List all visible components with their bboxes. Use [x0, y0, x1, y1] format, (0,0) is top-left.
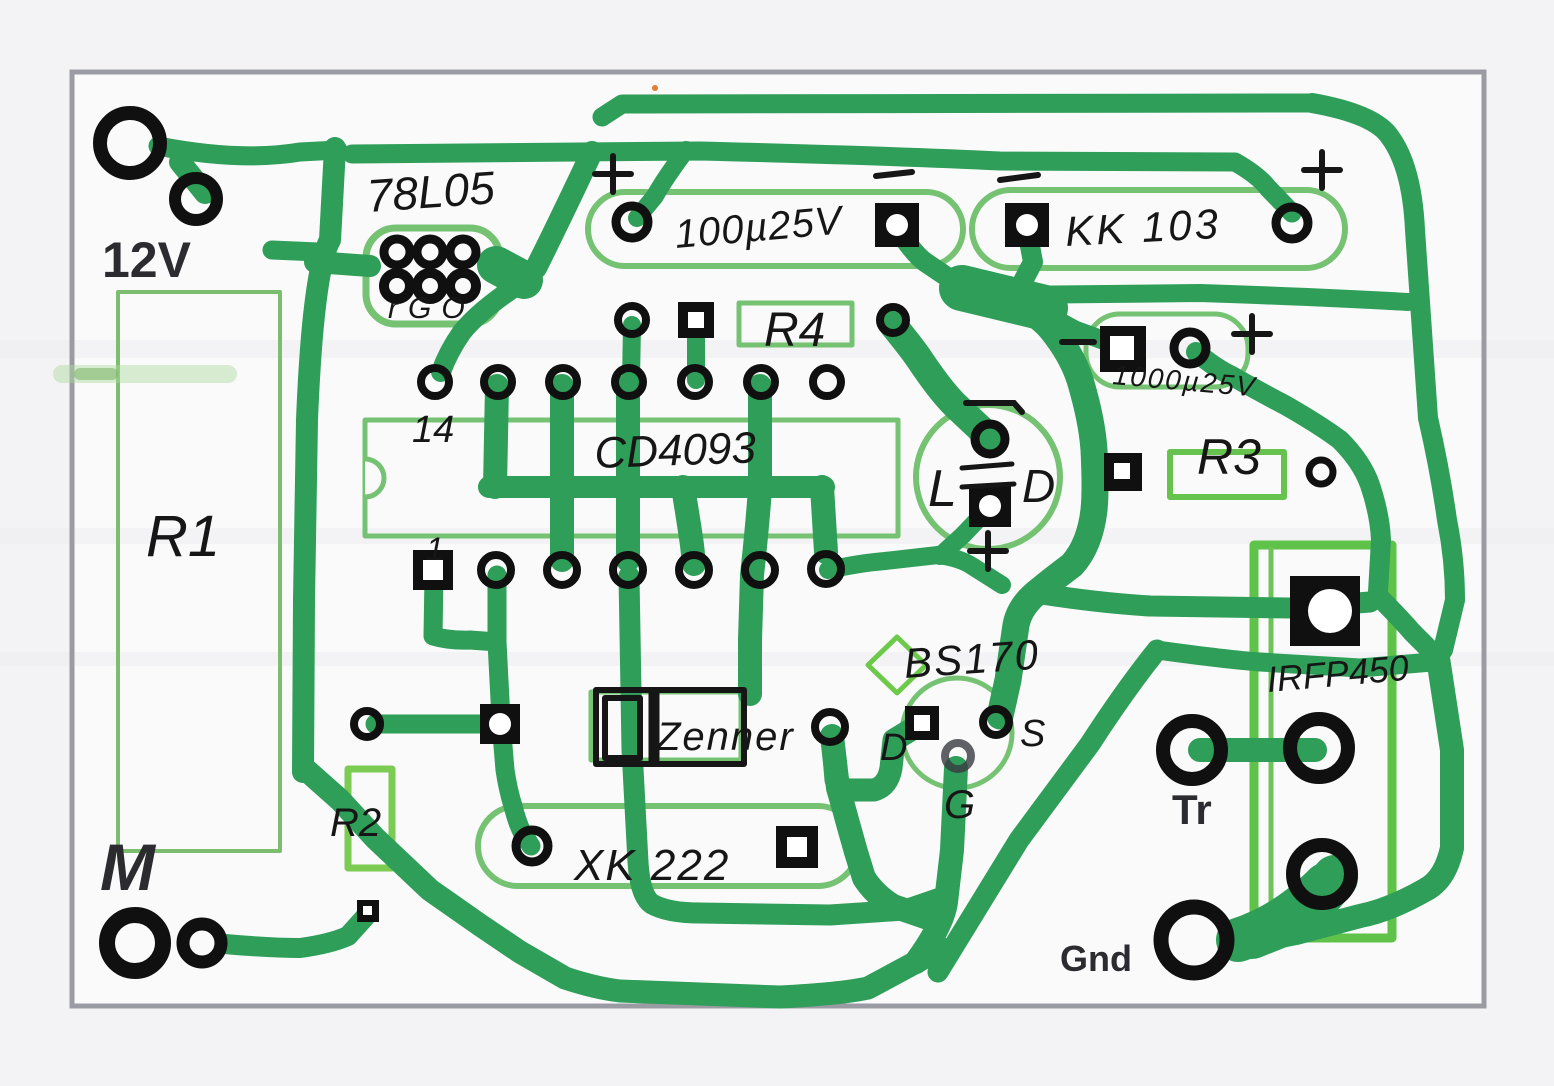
svg-text:R4: R4: [764, 304, 825, 357]
wire node horizontal to right edge: [1010, 293, 1408, 302]
svg-text:Tr: Tr: [1172, 786, 1212, 833]
wire from KK103 minus pad to node: [1020, 230, 1033, 287]
pad Tr ring 1: [1163, 721, 1221, 779]
wire node junction blob: [962, 288, 1045, 308]
pad 1000u plus ring: [1174, 332, 1206, 364]
wire small ring to square pad: [375, 715, 497, 734]
svg-text:L: L: [928, 460, 957, 518]
wire junction up to horizontal: [536, 152, 592, 268]
wire Tr to Gnd blob: [1238, 885, 1325, 940]
svg-text:Zenner: Zenner: [655, 715, 795, 759]
pad node ring: [880, 307, 906, 333]
wire IC internal bus bar: [489, 476, 824, 498]
pad KK103 minus square: [1005, 203, 1049, 247]
wire branch to IRFP450 pad: [1042, 594, 1370, 608]
IC notch: [365, 459, 384, 497]
wire zener to D pad zigzag: [833, 728, 914, 790]
plus KK103: [1319, 152, 1325, 188]
pad LED anode square: [969, 485, 1011, 527]
pad bottom-left big ring: [107, 915, 163, 971]
pad small solid square: [357, 900, 379, 922]
svg-text:XK 222: XK 222: [573, 841, 730, 890]
pads: [100, 113, 1360, 973]
wire bottom diagonal: [304, 768, 940, 997]
wire branch to 100u plus pad: [637, 150, 686, 218]
regulator 78L05 outline: [366, 228, 500, 324]
minus LED: [966, 403, 1022, 412]
wire right side down to bottom corner: [1250, 658, 1452, 942]
dark green traces: [158, 103, 1455, 997]
pads 78L05 bottom row: [384, 273, 410, 299]
pad zener ring: [815, 712, 845, 742]
svg-text:14: 14: [412, 409, 454, 451]
wire IC pins to mid pads: [631, 325, 632, 380]
svg-text:M: M: [100, 830, 157, 904]
svg-text:R1: R1: [146, 504, 220, 569]
plus minus signs: [595, 152, 1340, 569]
plus 1000u: [1249, 316, 1255, 352]
wire top horizontal 1: [602, 103, 1312, 117]
svg-text:1: 1: [426, 531, 444, 567]
resistor R2 outline: [348, 769, 392, 868]
pad XK222 square: [776, 826, 818, 868]
label LED E strokes: [962, 464, 1014, 487]
wire IC pin1 down to XK222: [433, 575, 531, 846]
pad IC pin1 square: [413, 550, 453, 590]
wire from 100u minus pad to node: [898, 230, 962, 287]
wire node to S pad: [1000, 300, 1095, 716]
transistor IRFP450 inner outline line: [1269, 547, 1274, 936]
wire IC stub pin2: [495, 386, 497, 487]
wire top-left pads to vertical: [158, 146, 338, 156]
pad IRFP450 square: [1290, 576, 1360, 646]
wire IC bar end stub: [822, 487, 826, 552]
pad small ring left: [354, 711, 380, 737]
pad 1000u minus square: [1100, 326, 1146, 372]
pad Gnd big ring: [1161, 907, 1227, 973]
pads 78L05 top row: [384, 239, 410, 265]
light green outlines group: [118, 190, 1392, 938]
zener diode outline: [591, 692, 741, 760]
wire trunk to 78L05: [315, 262, 370, 266]
pad mid square: [678, 302, 714, 338]
capacitor KK103 outline: [972, 190, 1345, 268]
wire U shape from IC pin: [629, 576, 940, 915]
transistor BS170 outline circle: [902, 678, 1012, 788]
wire long diagonal to G2: [938, 650, 1157, 972]
handwriting group: [62, 85, 1410, 979]
wire Tr pads horizontal: [1200, 738, 1315, 762]
pad Tr ring 2: [1290, 719, 1348, 777]
wire mid square pad to IC pin: [687, 325, 705, 380]
minus 1000u: [1062, 339, 1094, 345]
pads IC bottom row: [481, 554, 841, 585]
pad R3 left square: [1104, 453, 1142, 491]
wire junction down to IC pin: [441, 285, 518, 372]
wire 78L05 junction blob: [496, 265, 524, 280]
transistor IRFP450 outline: [1254, 545, 1392, 938]
IC CD4093 outline: [365, 420, 898, 536]
svg-text:R2: R2: [330, 801, 381, 845]
wire up to G pad: [916, 768, 956, 962]
board area: [72, 72, 1484, 1006]
svg-text:S: S: [1020, 713, 1045, 755]
svg-text:R3: R3: [1197, 429, 1261, 485]
orange speck: [652, 85, 658, 91]
wire node to 1000u square pad: [1030, 305, 1108, 342]
svg-text:12V: 12V: [102, 232, 192, 288]
wire pad to LED ring pad: [893, 325, 988, 436]
pad BS170 gate ring: [945, 743, 971, 769]
pad 100u plus ring: [616, 206, 648, 238]
minus KK103: [1000, 175, 1038, 180]
svg-text:78L05: 78L05: [365, 161, 497, 222]
LED outline circle: [916, 405, 1060, 549]
pad 12V small ring: [175, 178, 217, 220]
wire vertical left trunk: [303, 148, 335, 772]
capacitor 100u25V outline: [588, 192, 963, 266]
wire branch to LED square pad: [940, 514, 983, 556]
pad square mid-left: [480, 704, 520, 744]
wire zener pad down around pad: [832, 736, 928, 918]
wire IC stub to bottom pin: [683, 487, 694, 564]
svg-text:KK 103: KK 103: [1064, 200, 1222, 255]
svg-text:G: G: [944, 783, 975, 827]
wire knee joining right side: [1380, 598, 1438, 658]
wire IC stub pin4: [616, 386, 640, 560]
wire stub left of trunk: [272, 250, 318, 252]
svg-text:D: D: [1022, 460, 1055, 512]
highlighter swipe: [62, 365, 228, 383]
board border: [72, 72, 1484, 1006]
minus 100u: [876, 172, 912, 176]
svg-text:CD4093: CD4093: [594, 423, 758, 478]
pad 100u minus square: [875, 203, 919, 247]
pad 12V big ring: [100, 113, 160, 173]
faint scan bands: [0, 340, 1554, 666]
pad LED cathode ring: [975, 424, 1005, 454]
capacitor 1000u25V outline: [1086, 314, 1248, 387]
wire 1000u pad diagonal down: [1196, 352, 1381, 592]
pad XK222 ring: [516, 830, 548, 862]
svg-text:Gnd: Gnd: [1060, 938, 1132, 979]
wire IC stub pin6 through to zener: [750, 386, 760, 694]
pad mid ring: [618, 306, 646, 334]
pad BS170 drain square: [905, 706, 939, 740]
diode polarity diamond: [868, 637, 926, 693]
pad Tr ring 3: [1293, 845, 1351, 903]
wire IC stub pin3: [550, 386, 574, 560]
zener drawn black rectangle: [596, 690, 744, 764]
wire top horizontal 2: [352, 151, 1292, 213]
wire G2 horizontal to right: [1157, 650, 1432, 668]
wire right vertical from top: [1312, 103, 1455, 650]
pad R3 right ring: [1309, 460, 1333, 484]
svg-text:BS170: BS170: [902, 631, 1041, 687]
resistor R1 outline: [118, 292, 280, 851]
wire stub to pad 2: [180, 162, 205, 193]
svg-text:D: D: [880, 727, 907, 769]
plus LED: [985, 533, 991, 569]
pad KK103 plus ring: [1276, 207, 1308, 239]
resistor R4 outline: [739, 303, 852, 345]
wire bottom left pads to small square: [225, 916, 366, 948]
capacitor XK222 outline: [478, 806, 858, 886]
wire IC pin2 stub down: [488, 575, 507, 640]
wire IC pin to LED region: [828, 555, 1002, 585]
pad BS170 source ring: [983, 709, 1009, 735]
plus 100u: [610, 156, 616, 192]
svg-text:rGO: rGO: [388, 292, 475, 325]
resistor R3 outline: [1170, 452, 1284, 497]
pad bottom-left small ring: [183, 924, 221, 962]
pads IC top row: [421, 368, 841, 396]
wire Gnd blob fill: [1252, 878, 1335, 936]
